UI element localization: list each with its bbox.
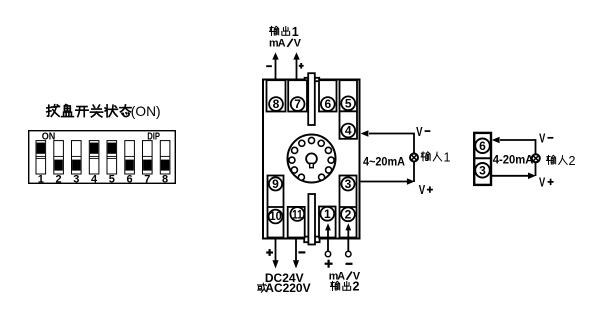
svg-text:4: 4	[91, 174, 98, 186]
svg-text:1: 1	[444, 151, 451, 165]
svg-text:(ON): (ON)	[131, 103, 161, 119]
svg-text:V: V	[294, 37, 302, 49]
svg-text:6: 6	[127, 174, 133, 186]
svg-text:2: 2	[56, 174, 62, 186]
svg-text:A: A	[337, 270, 345, 282]
svg-text:7: 7	[144, 174, 150, 186]
svg-text:V: V	[539, 175, 545, 190]
svg-text:5: 5	[109, 174, 115, 186]
svg-text:1: 1	[38, 174, 44, 186]
svg-text:V: V	[539, 130, 545, 145]
svg-text:6: 6	[479, 139, 486, 153]
svg-text:11: 11	[292, 207, 303, 221]
svg-text:2: 2	[353, 280, 360, 294]
svg-text:4: 4	[345, 124, 352, 138]
svg-text:2: 2	[345, 208, 352, 222]
svg-text:7: 7	[294, 97, 301, 111]
svg-text:V: V	[419, 182, 426, 197]
svg-text:2: 2	[569, 154, 576, 168]
svg-text:3: 3	[73, 174, 79, 186]
svg-text:AC220V: AC220V	[265, 283, 311, 295]
svg-text:4~20mA: 4~20mA	[363, 156, 405, 168]
svg-text:1: 1	[324, 207, 331, 221]
svg-text:8: 8	[273, 97, 280, 111]
svg-text:4-20mA: 4-20mA	[493, 155, 534, 167]
svg-text:5: 5	[345, 97, 352, 111]
svg-text:V: V	[416, 124, 423, 139]
svg-text:9: 9	[272, 177, 279, 191]
svg-text:10: 10	[270, 209, 282, 223]
svg-text:3: 3	[345, 177, 352, 191]
svg-text:A: A	[278, 37, 286, 49]
svg-text:3: 3	[479, 164, 486, 178]
svg-text:8: 8	[162, 174, 168, 186]
svg-text:6: 6	[324, 97, 331, 111]
